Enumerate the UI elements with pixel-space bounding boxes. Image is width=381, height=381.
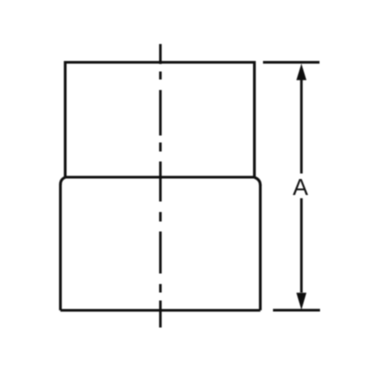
- fitting body: shoulder line: [65, 176, 254, 179]
- fitting body: large end (bottom cylinder) outline: [60, 184, 260, 310]
- arrowhead up: [296, 64, 306, 81]
- extension line bottom: [273, 309, 320, 312]
- svg-text:A: A: [293, 174, 309, 200]
- dimension line A (upper segment): [300, 79, 303, 174]
- extension line top: [263, 61, 320, 64]
- fitting body: small end (top cylinder) outline: [65, 62, 254, 177]
- fitting body: right fillet: [254, 177, 260, 185]
- centerline (vertical dash-dot axis): [159, 44, 162, 328]
- dimension line A (lower segment): [300, 198, 303, 292]
- fitting body: left fillet: [60, 177, 65, 184]
- arrowhead down: [296, 293, 306, 310]
